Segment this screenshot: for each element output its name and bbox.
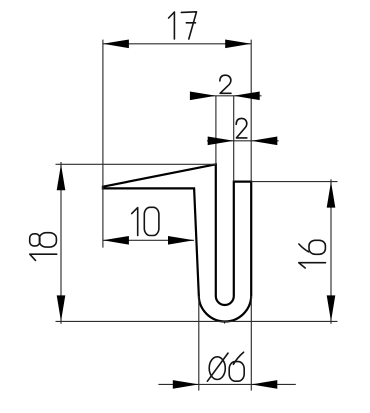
dimension 10: line <box>103 239 194 241</box>
dimension 16: line <box>330 179 332 324</box>
extension line right (for 17 and lower 2, x=251.2) <box>250 40 252 182</box>
extension line dia6 left (x=198.8) <box>198 296 200 391</box>
dimension 10: text "10" <box>132 207 159 235</box>
dimension lower 2: left arrow <box>208 137 234 146</box>
extension line slot-left (upper 2, x=215.9) <box>215 96 217 164</box>
dimension 18: text "18" (rotated) <box>30 233 57 261</box>
extension line slot-right (both 2 dims, x=233.7) <box>233 96 235 182</box>
profile outline (cross-section, thick) <box>103 164 251 321</box>
dimension lower 2: right arrow <box>251 137 277 146</box>
extension line 16 top (y=181.6) <box>251 181 337 183</box>
dimension dia6: left arrow <box>173 380 199 389</box>
dimension upper 2: text "2" <box>220 75 231 93</box>
dimension lower 2: line <box>207 140 279 142</box>
extension line top (18 dim, y=164.3) <box>56 163 216 165</box>
quadrant tick at bottom of U <box>224 321 226 324</box>
dimension 16: text "16" (rotated) <box>299 240 326 268</box>
dimension 10: right arrow <box>168 236 194 245</box>
dimension upper 2: line <box>190 95 261 97</box>
dimension dia6: right arrow <box>251 380 277 389</box>
dimension 17: line <box>103 43 251 45</box>
dimension upper 2: right arrow <box>234 92 260 101</box>
dimension 16: bottom arrow <box>327 295 336 321</box>
dimension 16: top arrow <box>327 182 336 208</box>
dimension 17: text "17" <box>169 12 197 39</box>
extension line left (for 17 and 10, at flange tip x=102.9) <box>102 40 104 248</box>
dimension lower 2: text "2" <box>236 118 247 137</box>
extension line bottom (18 and 16 dims, y=321.4) <box>56 320 338 322</box>
dimension upper 2: left arrow <box>190 92 216 101</box>
dimension 18: line <box>60 162 62 324</box>
dimension 10: left arrow <box>103 236 129 245</box>
dimension 18: top arrow <box>57 164 66 190</box>
dimension 18: bottom arrow <box>57 295 66 321</box>
extension line dia6 right (x=251.3) <box>250 296 252 391</box>
dimension dia6: text "Ø6" <box>207 352 244 381</box>
dimension 17: left arrow <box>103 40 129 49</box>
dimension 17: right arrow <box>225 40 251 49</box>
dimension dia6: line <box>158 383 295 385</box>
